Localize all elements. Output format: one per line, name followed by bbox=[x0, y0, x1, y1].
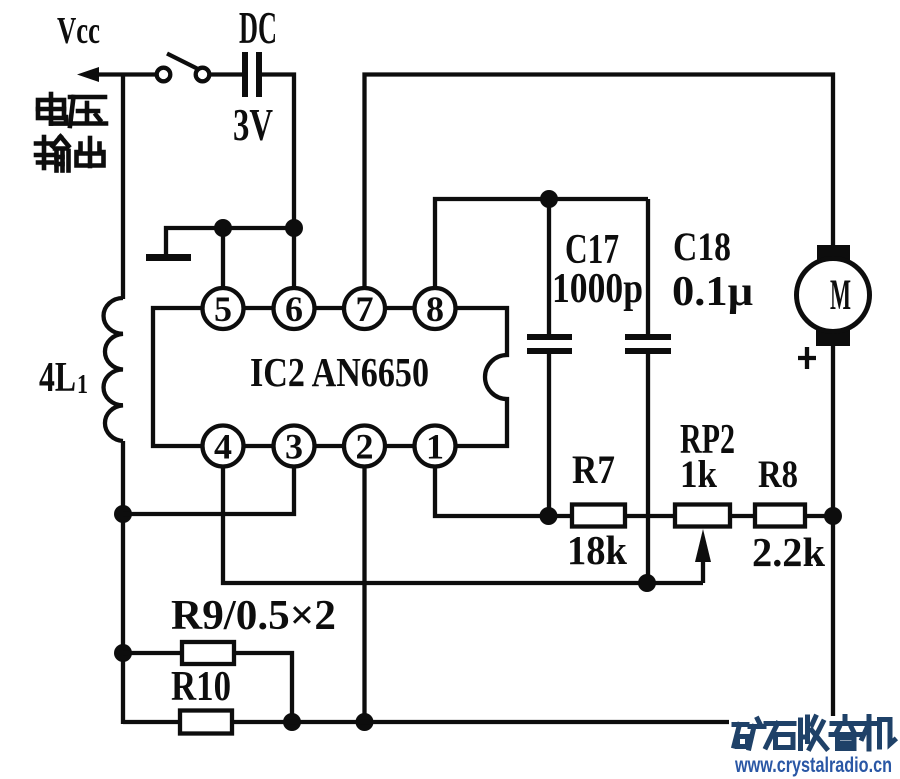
svg-text:6: 6 bbox=[285, 289, 303, 329]
svg-text:www.crystalradio.cn: www.crystalradio.cn bbox=[734, 754, 892, 777]
pin 2 bbox=[344, 426, 385, 467]
label 电压 (voltage) hand-drawn bbox=[38, 94, 106, 126]
capacitor C17 bbox=[527, 334, 572, 516]
potentiometer RP2 bbox=[675, 505, 730, 527]
motor M bbox=[797, 245, 870, 346]
wire pin4 down to wiper net bbox=[223, 467, 703, 583]
left rail wire Vcc down to inductor bbox=[121, 75, 125, 300]
svg-text:7: 7 bbox=[356, 289, 374, 329]
svg-text:1k: 1k bbox=[680, 453, 717, 496]
wire R8 to motor rail bbox=[805, 514, 833, 518]
svg-text:5: 5 bbox=[214, 289, 232, 329]
svg-text:4: 4 bbox=[214, 427, 232, 467]
wire pin1 down to R7 net bbox=[435, 467, 572, 516]
svg-text:C18: C18 bbox=[673, 224, 731, 269]
wire left rail to pin3 bbox=[123, 467, 294, 514]
wire RP2 to R8 bbox=[730, 514, 755, 518]
node Vcc output arrow bbox=[77, 67, 157, 82]
resistor R10 bbox=[180, 711, 232, 734]
svg-text:2.2k: 2.2k bbox=[752, 529, 825, 575]
left rail wire inductor down to bottom bbox=[121, 441, 125, 724]
pin 5 bbox=[203, 288, 244, 329]
wire pin8 up to caps top net bbox=[435, 199, 648, 289]
battery GB 3V plates bbox=[242, 52, 262, 97]
wire R7 to RP2 bbox=[625, 514, 675, 518]
wire battery to pin6 vertical bbox=[262, 75, 294, 289]
wire switch to battery bbox=[210, 72, 243, 76]
wire C17 top lead bbox=[547, 199, 551, 335]
bottom rail wire bbox=[123, 720, 833, 724]
switch S1 bbox=[157, 54, 210, 82]
svg-text:18k: 18k bbox=[567, 527, 627, 573]
junction dot left rail pin3 net bbox=[114, 505, 132, 523]
wire pin2 down to bottom rail bbox=[362, 467, 366, 722]
svg-text:R7: R7 bbox=[572, 447, 615, 492]
svg-text:M: M bbox=[830, 272, 851, 319]
svg-text:2: 2 bbox=[356, 427, 374, 467]
junction dot left rail R9 net bbox=[114, 644, 132, 662]
label 4L1 bbox=[39, 355, 88, 401]
svg-text:IC2 AN6650: IC2 AN6650 bbox=[250, 349, 429, 395]
junction dot C17 bottom bbox=[540, 507, 558, 525]
junction dot R9 bottom bbox=[283, 713, 301, 731]
resistor R7 bbox=[572, 505, 625, 527]
pin 6 bbox=[274, 288, 315, 329]
pin 8 bbox=[415, 288, 456, 329]
RP2 wiper arrow bbox=[695, 529, 711, 583]
svg-text:3V: 3V bbox=[233, 100, 273, 150]
right rail motor to bottom bbox=[831, 345, 835, 724]
wire dot to pin5 bbox=[221, 228, 225, 289]
wire left rail to R9 bbox=[123, 651, 182, 655]
svg-text:DC: DC bbox=[239, 3, 277, 53]
watermark background bbox=[729, 716, 900, 779]
svg-text:3: 3 bbox=[285, 427, 303, 467]
svg-text:Vcc: Vcc bbox=[57, 10, 100, 52]
pin 3 bbox=[274, 426, 315, 467]
watermark 矿石收音机 hand-drawn bbox=[734, 717, 895, 750]
junction dot C18 bottom bbox=[638, 574, 656, 592]
wire C18 top lead bbox=[646, 199, 650, 335]
svg-text:R10: R10 bbox=[171, 664, 231, 710]
pin 1 bbox=[415, 426, 456, 467]
motor plus sign bbox=[798, 347, 816, 369]
junction dot at motor rail bbox=[824, 507, 842, 525]
svg-text:R9/0.5×2: R9/0.5×2 bbox=[171, 593, 336, 639]
junction dot top of C17 bbox=[540, 190, 558, 208]
pin 7 bbox=[344, 288, 385, 329]
label 输出 (output) hand-drawn bbox=[36, 137, 104, 171]
junction dot pin2 bottom bbox=[356, 713, 374, 731]
svg-text:8: 8 bbox=[426, 289, 444, 329]
inductor 4L1 bbox=[104, 298, 123, 441]
wire pin7 up and over to motor bbox=[365, 75, 834, 289]
svg-text:4L: 4L bbox=[39, 355, 76, 401]
svg-text:1000p: 1000p bbox=[552, 266, 643, 312]
junction dot above pin 6 bbox=[285, 219, 303, 237]
svg-text:1: 1 bbox=[77, 369, 88, 399]
pin 4 bbox=[203, 426, 244, 467]
wire R9 down to bottom rail bbox=[234, 653, 292, 722]
svg-text:R8: R8 bbox=[758, 453, 798, 496]
junction dot above pin 5 bbox=[214, 219, 232, 237]
resistor R9 bbox=[182, 642, 234, 664]
resistor R8 bbox=[755, 505, 805, 527]
svg-text:0.1μ: 0.1μ bbox=[672, 269, 753, 315]
ground symbol bbox=[146, 228, 294, 261]
svg-text:1: 1 bbox=[426, 427, 444, 467]
capacitor C18 bbox=[625, 334, 671, 583]
IC2 AN6650 body with notch bbox=[153, 308, 507, 446]
